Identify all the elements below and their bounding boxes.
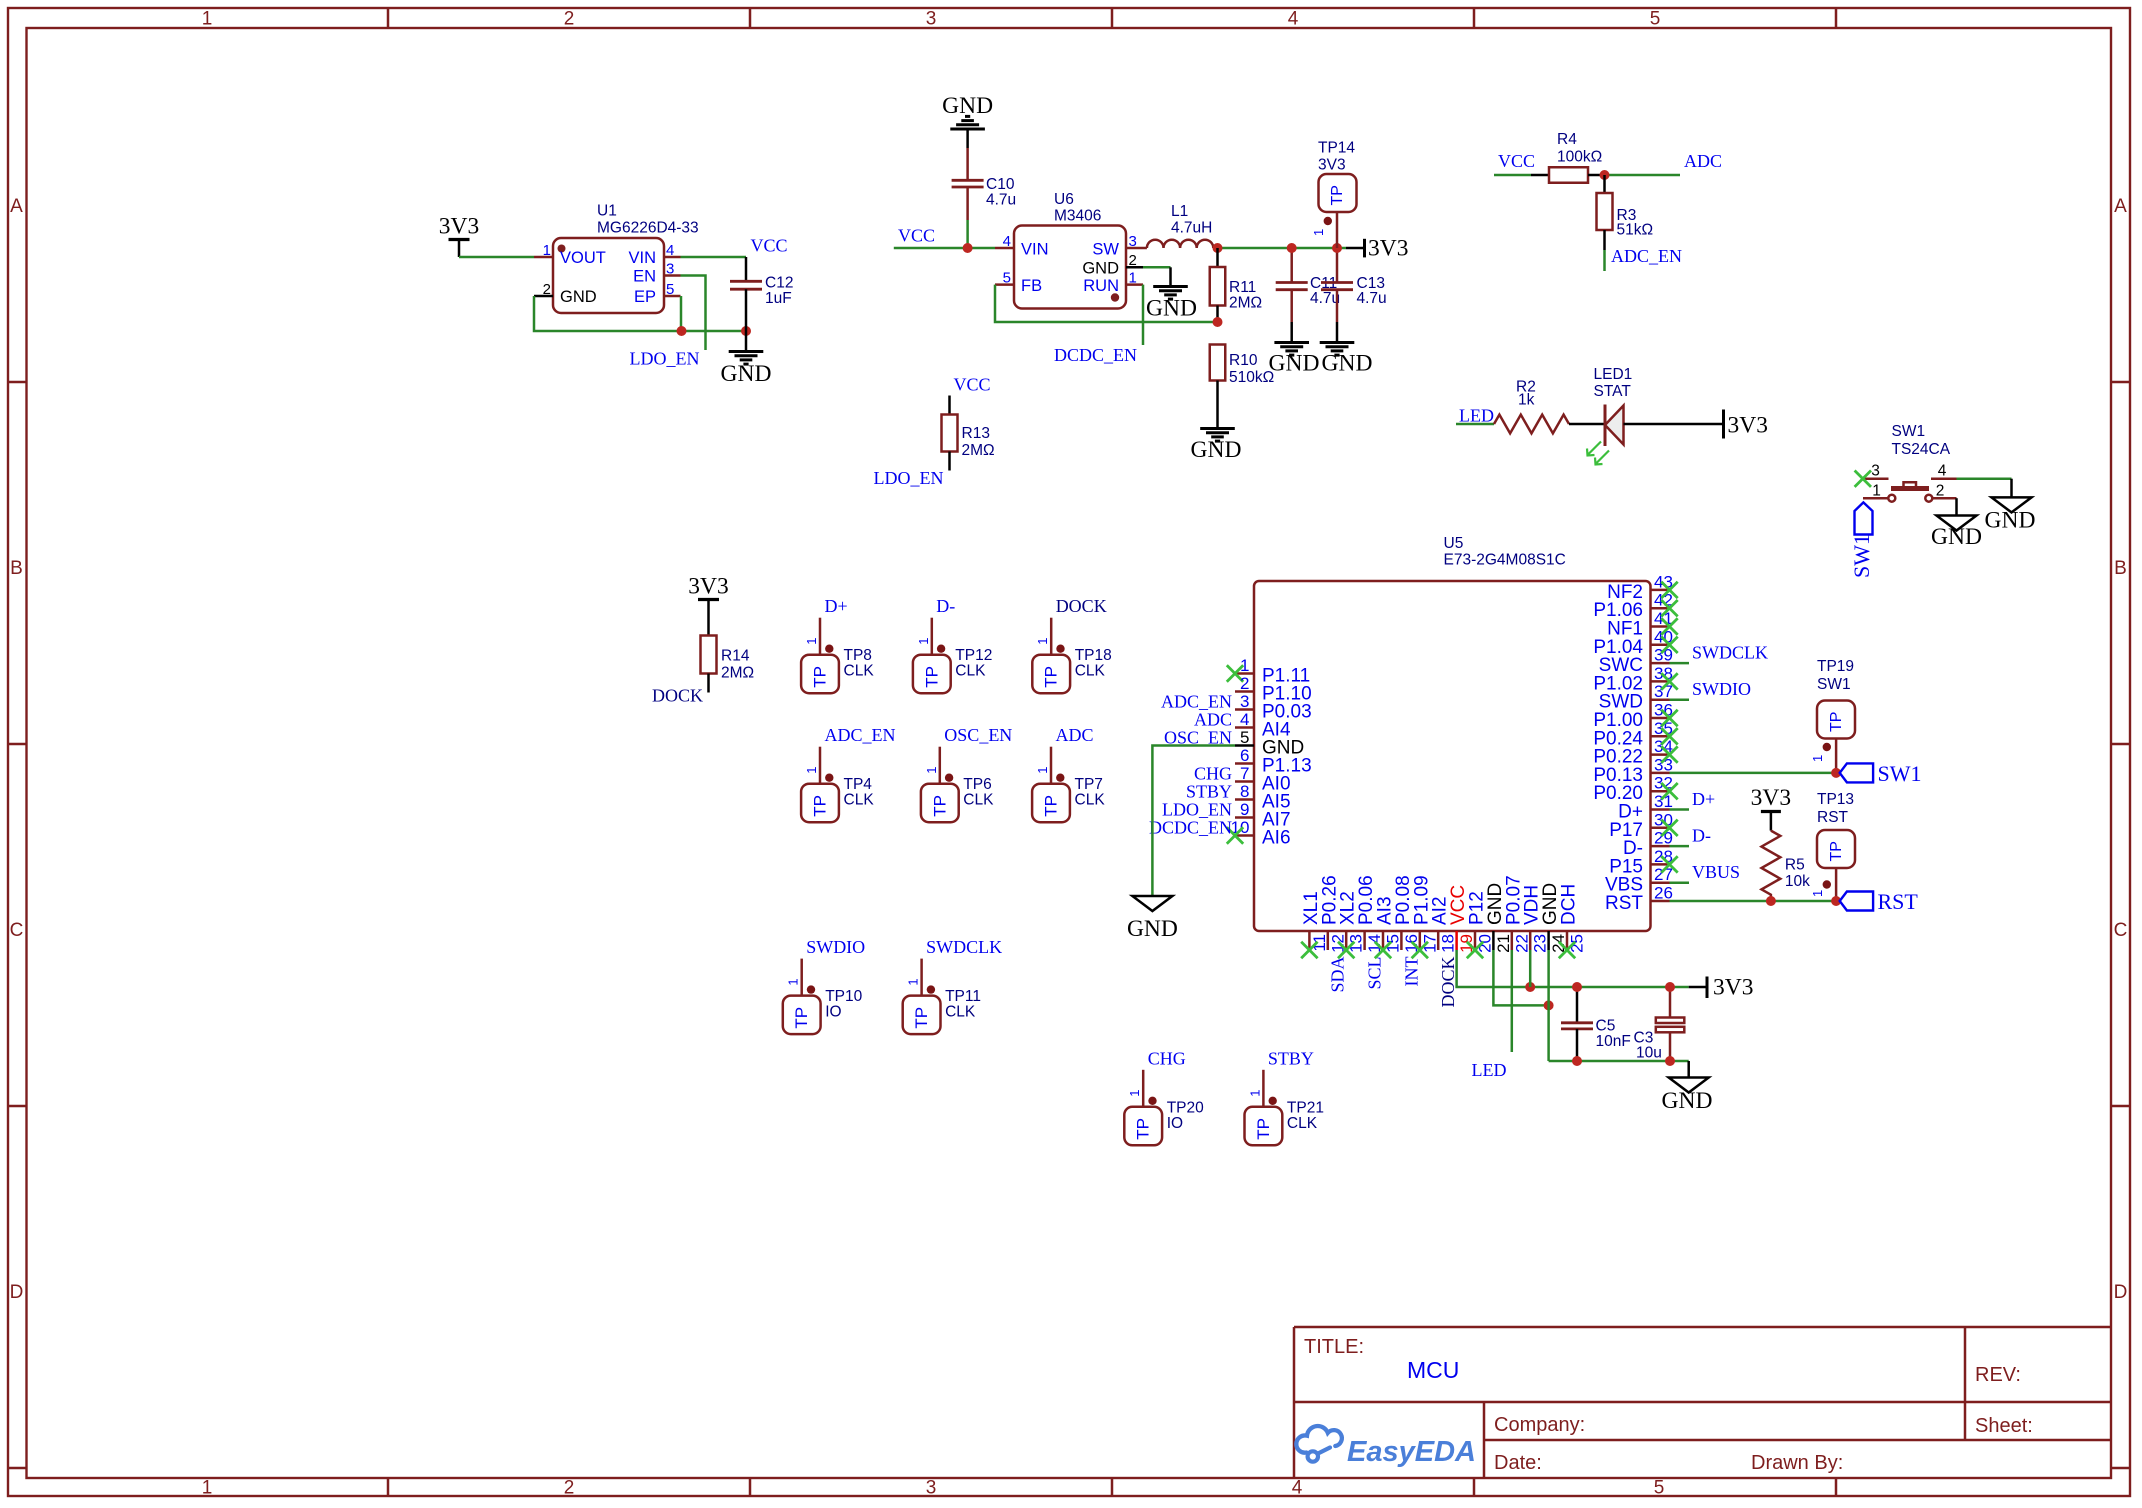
U1 pin 4	[664, 242, 681, 259]
svg-text:ADC: ADC	[1056, 725, 1094, 745]
svg-text:ADC: ADC	[1194, 710, 1232, 730]
svg-text:4: 4	[1240, 710, 1249, 729]
U5 pin 14	[1356, 875, 1384, 953]
no-connect X U5 pin 36	[1661, 710, 1677, 726]
resistor R5	[1762, 831, 1811, 901]
junction TP13	[1831, 896, 1841, 906]
svg-text:LDO_EN: LDO_EN	[1162, 800, 1232, 820]
svg-text:7: 7	[1240, 764, 1249, 783]
svg-text:1: 1	[804, 637, 819, 644]
svg-text:D+: D+	[1692, 789, 1715, 809]
svg-text:4: 4	[1003, 233, 1011, 250]
U5 pin 29	[1623, 829, 1673, 860]
svg-text:LED1: LED1	[1594, 366, 1633, 383]
svg-text:37: 37	[1654, 682, 1673, 701]
U5 pin 39	[1599, 646, 1673, 677]
SW1 pin 4	[1931, 463, 1957, 480]
svg-text:ADC_EN: ADC_EN	[1611, 246, 1682, 266]
svg-text:R5: R5	[1785, 857, 1805, 874]
svg-text:27: 27	[1654, 865, 1673, 884]
no-connect X U5 pin 11	[1301, 942, 1317, 958]
svg-text:31: 31	[1654, 792, 1673, 811]
svg-text:3V3: 3V3	[1318, 157, 1346, 174]
svg-text:Sheet:: Sheet:	[1975, 1415, 2033, 1437]
no-connect X U5 pin 41	[1661, 618, 1677, 634]
svg-text:5: 5	[1650, 9, 1661, 30]
test point TP4	[801, 725, 895, 822]
U5 pin 41	[1607, 609, 1673, 640]
no-connect X U5 pin 1	[1227, 665, 1243, 681]
svg-text:L1: L1	[1171, 203, 1188, 220]
svg-text:2: 2	[1936, 483, 1945, 500]
U5 pin 43	[1607, 572, 1673, 603]
U6 pin 5	[995, 270, 1014, 287]
svg-text:GND: GND	[1127, 916, 1178, 942]
svg-text:MG6226D4-33: MG6226D4-33	[597, 220, 699, 237]
wire U1 pin3 to LDO_EN	[681, 276, 706, 351]
svg-text:P1.06: P1.06	[1593, 600, 1643, 621]
svg-text:D+: D+	[825, 596, 848, 616]
svg-text:GND: GND	[1269, 351, 1320, 377]
U5 pin 7	[1235, 764, 1291, 795]
svg-text:TP: TP	[1828, 841, 1845, 861]
svg-text:4.7u: 4.7u	[1310, 290, 1340, 307]
svg-text:3V3: 3V3	[1728, 412, 1768, 438]
wire pin22 LED	[1511, 950, 1514, 1052]
svg-text:Date:: Date:	[1494, 1452, 1542, 1474]
svg-text:SCL: SCL	[1365, 957, 1385, 990]
svg-text:TP: TP	[912, 1007, 931, 1029]
U6 pin 1	[1126, 270, 1143, 287]
no-connect X U5 pin 10	[1227, 827, 1243, 843]
svg-text:RST: RST	[1878, 889, 1919, 914]
svg-text:TP14: TP14	[1318, 140, 1355, 157]
junction pin24 link	[1544, 1000, 1554, 1010]
svg-text:13: 13	[1347, 934, 1366, 953]
svg-text:STBY: STBY	[1268, 1048, 1314, 1068]
svg-text:DCDC_EN: DCDC_EN	[1149, 818, 1232, 838]
wire U5 pin26 to RST flag	[1670, 900, 1837, 903]
svg-text:2: 2	[1129, 252, 1137, 269]
svg-text:D-: D-	[1692, 826, 1711, 846]
svg-text:15: 15	[1384, 934, 1403, 953]
junction R4-R3	[1600, 170, 1610, 180]
capacitor C5	[1561, 987, 1631, 1061]
svg-text:1: 1	[786, 978, 801, 985]
junction VCC-C10	[963, 243, 973, 253]
title block	[1294, 1327, 2111, 1478]
svg-text:3: 3	[926, 9, 937, 30]
svg-text:SWDIO: SWDIO	[806, 937, 865, 957]
svg-text:1: 1	[1311, 229, 1326, 236]
svg-text:U6: U6	[1054, 191, 1074, 208]
resistor R4	[1531, 131, 1605, 183]
test point TP7	[1032, 725, 1105, 822]
test point TP6	[921, 725, 1012, 822]
svg-text:TP7: TP7	[1075, 776, 1103, 793]
power flag 3V3 (LED1)	[1724, 410, 1768, 439]
U5 pin 33	[1593, 755, 1673, 786]
power flag 3V3 (DCDC output)	[1346, 236, 1408, 262]
junction C3 bottom	[1665, 1056, 1675, 1066]
wire R3 to ADC_EN	[1603, 250, 1606, 271]
test point TP8	[801, 596, 874, 693]
junction L1 output	[1213, 243, 1223, 253]
no-connect X U5 pin 30	[1661, 820, 1677, 836]
U5 pin 21	[1485, 883, 1513, 953]
svg-text:D-: D-	[1623, 838, 1643, 859]
wire R4 to ADC	[1605, 174, 1681, 177]
svg-text:P1.00: P1.00	[1593, 710, 1643, 731]
svg-text:P0.24: P0.24	[1593, 728, 1643, 749]
svg-text:20: 20	[1476, 934, 1495, 953]
svg-text:ADC_EN: ADC_EN	[825, 725, 896, 745]
svg-text:TP: TP	[1134, 1118, 1153, 1140]
power flag 3V3 (U1 input)	[439, 214, 479, 258]
svg-text:5: 5	[1654, 1478, 1665, 1499]
svg-text:DOCK: DOCK	[1056, 596, 1107, 616]
ground GND (U6 pin2)	[1146, 267, 1197, 321]
svg-text:TP11: TP11	[945, 988, 981, 1005]
power flag 3V3 (R14)	[688, 574, 728, 636]
test point TP14	[1311, 140, 1357, 249]
svg-text:ADC_EN: ADC_EN	[1161, 692, 1232, 712]
svg-text:2MΩ: 2MΩ	[721, 665, 754, 682]
svg-text:1k: 1k	[1518, 392, 1535, 409]
module U5 E73-2G4M08S1C body	[1254, 535, 1651, 931]
svg-text:1: 1	[1810, 755, 1825, 762]
svg-text:LDO_EN: LDO_EN	[874, 468, 944, 488]
svg-text:GND: GND	[1322, 351, 1373, 377]
svg-text:SWDCLK: SWDCLK	[1692, 643, 1768, 663]
svg-text:3V3: 3V3	[1368, 236, 1408, 262]
svg-text:11: 11	[1310, 934, 1329, 952]
svg-text:A: A	[2114, 196, 2127, 217]
wire pin24 to GND rail	[1547, 950, 1550, 1061]
wire U1 pin2 ground loop	[534, 296, 746, 331]
svg-text:1: 1	[1035, 637, 1050, 644]
svg-text:RST: RST	[1605, 893, 1643, 914]
svg-text:REV:: REV:	[1975, 1364, 2021, 1386]
U5 pin 26	[1605, 884, 1673, 915]
svg-text:TP: TP	[1329, 185, 1346, 205]
svg-text:VBS: VBS	[1605, 875, 1643, 896]
svg-text:TP10: TP10	[825, 988, 862, 1005]
svg-text:1: 1	[1129, 270, 1137, 287]
svg-text:CLK: CLK	[945, 1004, 976, 1021]
U6 pin 2	[1126, 252, 1143, 269]
capacitor C3	[1634, 987, 1685, 1062]
U5 pin 6	[1235, 746, 1312, 777]
no-connect X U5 pin 40	[1661, 637, 1677, 653]
wire pin23 to rail	[1529, 950, 1532, 987]
svg-text:GND: GND	[1985, 508, 2036, 534]
no-connect X U5 pin 42	[1661, 600, 1677, 616]
wire U5 pin 37	[1670, 698, 1690, 701]
junction C3 top	[1665, 982, 1675, 992]
svg-text:R10: R10	[1229, 352, 1258, 369]
svg-text:100kΩ: 100kΩ	[1557, 149, 1602, 166]
svg-text:B: B	[10, 558, 23, 579]
U5 pin 25	[1559, 884, 1587, 953]
svg-text:8: 8	[1240, 782, 1249, 801]
wire U6 pin2 to ground	[1143, 266, 1171, 269]
svg-text:39: 39	[1654, 646, 1673, 665]
op-amp U1 MG6226D4-33 body	[553, 203, 699, 314]
svg-text:TP21: TP21	[1287, 1099, 1324, 1116]
no-connect X U5 pin 17	[1412, 942, 1428, 958]
svg-text:1uF: 1uF	[765, 290, 792, 307]
capacitor C13	[1321, 248, 1387, 322]
svg-text:SW: SW	[1092, 241, 1119, 259]
test point TP11	[903, 937, 1002, 1034]
svg-text:2: 2	[564, 1478, 575, 1499]
U5 pin 23	[1522, 885, 1550, 953]
wire GND rail	[1549, 1060, 1689, 1063]
svg-text:1: 1	[906, 978, 921, 985]
wire C10 to VCC rail	[966, 220, 969, 248]
svg-text:P0.20: P0.20	[1593, 783, 1643, 804]
U5 pin 40	[1593, 627, 1673, 658]
junction C12-GND	[741, 326, 751, 336]
svg-text:TP: TP	[930, 795, 949, 817]
resistor R11	[1210, 248, 1262, 322]
svg-text:3: 3	[1129, 233, 1137, 250]
svg-text:C: C	[2114, 920, 2128, 941]
svg-text:25: 25	[1568, 934, 1587, 953]
ground GND (C10 top)	[942, 93, 993, 148]
svg-text:AI6: AI6	[1262, 828, 1291, 849]
svg-text:P1.04: P1.04	[1593, 637, 1643, 658]
wire 3V3 rail from L1	[1218, 247, 1347, 250]
ground GND (SW1 pin4)	[1985, 497, 2036, 533]
resistor R14	[701, 636, 755, 693]
svg-text:9: 9	[1240, 800, 1249, 819]
U5 pin 35	[1593, 719, 1673, 750]
EasyEDA logo	[1296, 1426, 1476, 1468]
svg-text:TP: TP	[922, 666, 941, 688]
svg-text:21: 21	[1494, 934, 1513, 953]
svg-text:SWC: SWC	[1599, 655, 1643, 676]
wire VCC into U6 pin4	[894, 247, 995, 250]
svg-text:29: 29	[1654, 829, 1673, 848]
junction C5 bottom	[1572, 1056, 1582, 1066]
wire SW1 pin4 to GND	[1957, 479, 2012, 498]
svg-text:GND: GND	[721, 361, 772, 387]
svg-text:3: 3	[926, 1478, 937, 1499]
svg-text:TP13: TP13	[1817, 791, 1854, 808]
inductor L1	[1143, 203, 1213, 248]
svg-text:TS24CA: TS24CA	[1892, 441, 1951, 458]
wire 3V3 to U1 pin1	[459, 256, 534, 259]
svg-text:P15: P15	[1609, 856, 1643, 877]
test point TP10	[783, 937, 865, 1034]
power flag 3V3 (R5)	[1751, 785, 1791, 831]
no-connect X SW1 pin3	[1855, 471, 1871, 487]
svg-text:3V3: 3V3	[688, 574, 728, 600]
resistor R2	[1494, 379, 1569, 434]
svg-text:1: 1	[804, 766, 819, 773]
svg-text:510kΩ: 510kΩ	[1229, 369, 1274, 386]
wire pin21 to pin24 link	[1493, 950, 1548, 1005]
U1 pin 1	[534, 242, 553, 259]
svg-text:TP12: TP12	[955, 647, 992, 664]
svg-text:GND: GND	[1662, 1088, 1713, 1114]
no-connect X U5 pin 28	[1661, 856, 1677, 872]
svg-text:R13: R13	[962, 425, 990, 442]
svg-text:C5: C5	[1596, 1018, 1616, 1035]
U5 pin 27	[1605, 865, 1673, 896]
junction TP19	[1831, 768, 1841, 778]
U5 pin 11	[1301, 891, 1329, 951]
no-connect X U5 pin 43	[1661, 582, 1677, 598]
svg-text:TP18: TP18	[1075, 647, 1112, 664]
svg-text:1: 1	[202, 1478, 213, 1499]
SW1 pin 1	[1863, 483, 1895, 502]
U5 pin 42	[1593, 591, 1673, 622]
wire U1 pin5 EP to ground loop	[680, 296, 683, 331]
svg-text:17: 17	[1420, 934, 1439, 953]
svg-text:MCU: MCU	[1407, 1357, 1459, 1383]
resistor R13	[942, 396, 995, 471]
capacitor C11	[1276, 248, 1340, 322]
svg-text:SW1: SW1	[1878, 761, 1922, 786]
svg-text:4.7uH: 4.7uH	[1171, 220, 1212, 237]
svg-text:CLK: CLK	[844, 663, 875, 680]
ground GND (C13)	[1320, 322, 1373, 377]
wire R2 to LED1	[1569, 423, 1605, 426]
svg-text:D-: D-	[936, 596, 955, 616]
svg-text:1: 1	[1035, 766, 1050, 773]
regulator U6 M3406 body	[1014, 191, 1126, 309]
svg-text:3V3: 3V3	[439, 214, 479, 240]
svg-text:CLK: CLK	[844, 792, 875, 809]
wire U5 pin33 to SW1 flag	[1670, 772, 1837, 775]
svg-text:Drawn By:: Drawn By:	[1751, 1452, 1843, 1474]
wire U6 RUN to DCDC_EN	[1142, 285, 1145, 345]
net port SW1 (flag)	[1849, 502, 1874, 578]
svg-text:DCDC_EN: DCDC_EN	[1054, 345, 1137, 365]
wire VCC pin19 to 3V3 rail	[1457, 950, 1689, 987]
svg-text:26: 26	[1654, 884, 1673, 903]
svg-text:A: A	[10, 196, 23, 217]
svg-text:1: 1	[1872, 483, 1881, 500]
svg-text:IO: IO	[1167, 1115, 1183, 1132]
svg-text:VOUT: VOUT	[560, 249, 606, 267]
svg-text:STAT: STAT	[1594, 383, 1632, 400]
wire GND rail corner	[1687, 1061, 1690, 1078]
svg-text:CLK: CLK	[1287, 1115, 1318, 1132]
junction EP-GND	[677, 326, 687, 336]
wire U5 pin 27	[1670, 881, 1690, 884]
svg-text:5: 5	[1003, 270, 1011, 287]
svg-text:CLK: CLK	[1075, 792, 1106, 809]
svg-text:3V3: 3V3	[1713, 975, 1753, 1001]
test point TP12	[913, 596, 992, 693]
U5 pin 12	[1319, 875, 1347, 953]
U5 pin 17	[1411, 875, 1439, 953]
svg-text:SWD: SWD	[1599, 692, 1643, 713]
no-connect X U5 pin 35	[1661, 728, 1677, 744]
no-connect X U5 pin 25	[1559, 942, 1575, 958]
junction C5 top	[1572, 982, 1582, 992]
net port SW1 (right flag)	[1840, 761, 1922, 786]
svg-text:B: B	[2114, 558, 2127, 579]
svg-text:SDA: SDA	[1328, 957, 1348, 993]
svg-text:CHG: CHG	[1148, 1048, 1186, 1068]
svg-text:TP6: TP6	[963, 776, 991, 793]
svg-text:VIN: VIN	[1021, 241, 1049, 259]
svg-text:23: 23	[1531, 934, 1550, 953]
U1 pin 2	[534, 281, 553, 298]
svg-text:P17: P17	[1609, 820, 1643, 841]
svg-text:1: 1	[1810, 890, 1825, 897]
svg-text:RST: RST	[1817, 809, 1849, 826]
U5 pin 16	[1393, 875, 1421, 953]
U5 pin 36	[1593, 701, 1673, 732]
wire VCC to R4	[1494, 174, 1531, 177]
svg-text:SW1: SW1	[1817, 676, 1851, 693]
svg-text:51kΩ: 51kΩ	[1617, 222, 1654, 239]
svg-text:GND: GND	[1082, 260, 1119, 278]
svg-text:INT: INT	[1401, 957, 1421, 987]
svg-text:SWDIO: SWDIO	[1692, 679, 1751, 699]
svg-text:EN: EN	[633, 268, 656, 286]
svg-text:10k: 10k	[1785, 873, 1810, 890]
svg-text:4.7u: 4.7u	[1357, 290, 1387, 307]
svg-text:R14: R14	[721, 648, 750, 665]
no-connect X U5 pin 15	[1375, 942, 1391, 958]
svg-text:SW1: SW1	[1849, 534, 1874, 578]
svg-text:TP: TP	[792, 1007, 811, 1029]
svg-text:1: 1	[1247, 1090, 1262, 1097]
svg-text:TP20: TP20	[1167, 1099, 1204, 1116]
svg-text:R11: R11	[1229, 279, 1256, 296]
svg-text:TP8: TP8	[844, 647, 872, 664]
svg-text:CHG: CHG	[1194, 764, 1232, 784]
no-connect X U5 pin 13	[1338, 942, 1354, 958]
resistor R10	[1210, 345, 1274, 409]
svg-text:22: 22	[1512, 934, 1531, 953]
svg-text:LED: LED	[1472, 1060, 1507, 1080]
U5 pin 18	[1430, 896, 1458, 952]
no-connect X U5 pin 38	[1661, 673, 1677, 689]
no-connect X U5 pin 20	[1467, 942, 1483, 958]
wire U6 FB feedback loop	[995, 285, 1218, 322]
svg-text:4: 4	[1288, 9, 1299, 30]
svg-text:TITLE:: TITLE:	[1304, 1336, 1364, 1358]
svg-text:1: 1	[1127, 1090, 1142, 1097]
diode LED1 STAT	[1587, 366, 1632, 465]
svg-text:P0.22: P0.22	[1593, 747, 1643, 768]
U6 pin 3	[1126, 233, 1143, 250]
svg-text:GND: GND	[560, 288, 597, 306]
U5 pin 1	[1235, 656, 1310, 687]
svg-text:TP19: TP19	[1817, 658, 1854, 675]
svg-text:P1.02: P1.02	[1593, 673, 1643, 694]
svg-text:NF2: NF2	[1607, 582, 1643, 603]
U5 pin 2	[1235, 674, 1312, 705]
svg-text:EasyEDA: EasyEDA	[1347, 1436, 1476, 1468]
svg-text:1: 1	[202, 9, 213, 30]
SW1 pin 2	[1925, 483, 1956, 502]
U1 pin 3	[664, 261, 681, 278]
svg-text:2MΩ: 2MΩ	[962, 442, 995, 459]
wire SW1 pin2 to GND	[1955, 498, 1958, 515]
wire U5 pin 39	[1670, 662, 1690, 665]
svg-text:TP4: TP4	[844, 776, 873, 793]
svg-text:VCC: VCC	[751, 236, 788, 256]
